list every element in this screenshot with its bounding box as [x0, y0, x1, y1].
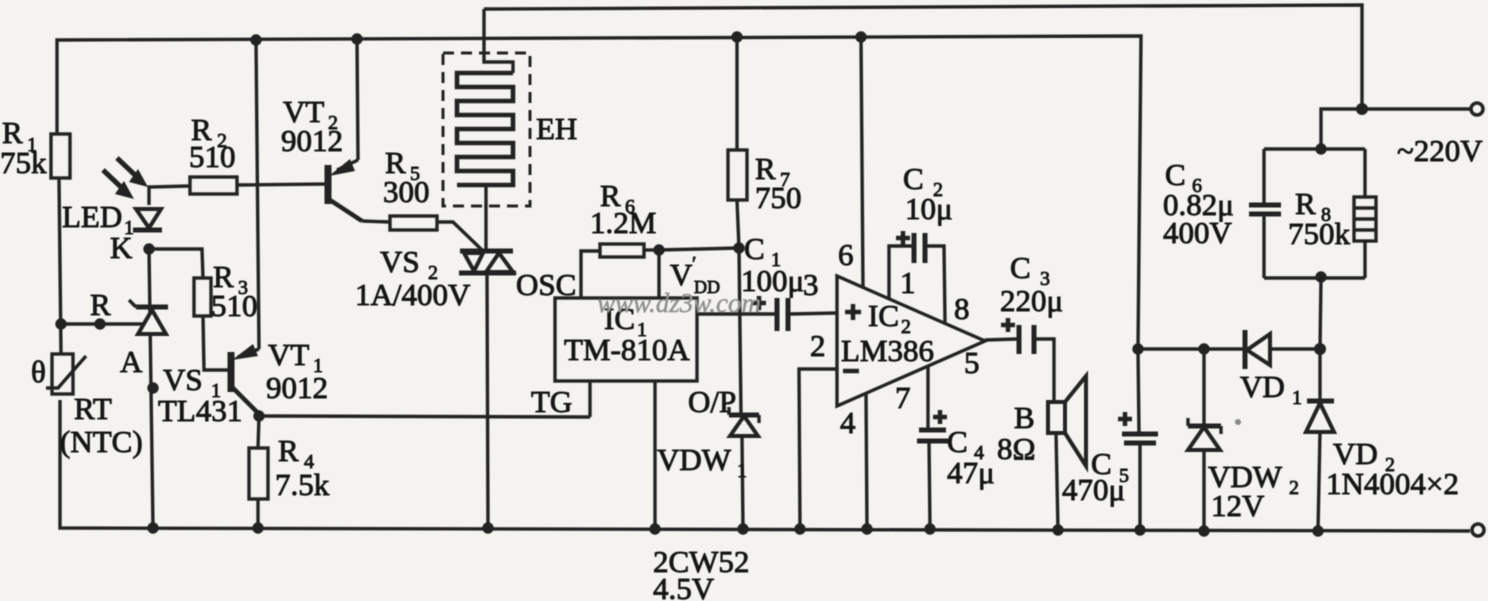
svg-text:www.dz3w.com: www.dz3w.com [597, 288, 761, 318]
label 2CW52 4.5V [653, 544, 749, 601]
svg-text:1: 1 [737, 460, 747, 482]
pin 2 label [810, 328, 826, 363]
op-amp IC2 LM386 [837, 276, 985, 406]
label VS2 1A/400V [355, 244, 471, 312]
label theta RT (NTC) [31, 354, 143, 459]
svg-text:2: 2 [1289, 477, 1299, 499]
polarity + of C3 [1001, 318, 1015, 332]
speaker B [1048, 376, 1086, 530]
label R2 510 [189, 112, 236, 174]
svg-text:C: C [947, 424, 968, 459]
svg-text:TL431: TL431 [158, 393, 242, 428]
pin 5 label [964, 345, 980, 380]
wire top rail (mains top) [484, 5, 1362, 109]
capacitor C1 [697, 298, 837, 331]
polarity + of C1 [752, 296, 766, 310]
node junction 220V corner [1356, 103, 1368, 115]
IC U1 TM-810A box [555, 298, 697, 381]
svg-text:5: 5 [964, 345, 980, 380]
node junction VD2-ground [1312, 525, 1323, 536]
label VDW2 12V [1208, 459, 1299, 523]
wire left column R1 to RT [59, 178, 61, 354]
shunt regulator VS1 TL431 [129, 300, 168, 334]
label VDW1 [657, 442, 747, 482]
capacitor C3 output [985, 325, 1054, 402]
polarity + of C2 [896, 231, 910, 245]
svg-text:1: 1 [1292, 387, 1302, 409]
pin 4 label [840, 405, 856, 440]
zener VDW1 [729, 407, 759, 529]
svg-text:′: ′ [692, 253, 696, 275]
wire 12V rail [1138, 347, 1320, 350]
svg-text:1: 1 [900, 265, 916, 300]
LED LED1 [133, 209, 162, 230]
wire VT1 collector to R4 to ground [258, 416, 259, 528]
pin 7 label [895, 380, 911, 415]
node junction VDW2-ground [1198, 525, 1209, 536]
snubber box wires [1264, 149, 1365, 349]
transistor VT1 9012 [231, 344, 259, 414]
resistor R1 [51, 134, 70, 178]
wire R7 to VDW1 [739, 248, 741, 415]
node junction rail2-VT2 [351, 33, 362, 44]
label B 8ohm [997, 400, 1036, 466]
label R8 750k [1288, 186, 1351, 251]
pin 2 wire [799, 369, 837, 529]
label TG [531, 384, 572, 419]
node junction pin2-ground [794, 523, 805, 534]
wire VS2 anode to ground [487, 273, 488, 528]
wire second rail (Vcc) [57, 36, 1141, 349]
svg-text:TG: TG [531, 384, 572, 419]
resistor R7 [728, 37, 747, 248]
svg-text:7.5k: 7.5k [275, 467, 330, 502]
svg-text:VS: VS [380, 244, 420, 279]
node junction VS2-ground [482, 522, 493, 533]
op-amp plus input mark [845, 304, 861, 320]
pin VDD wire [659, 248, 739, 298]
svg-text:300: 300 [383, 174, 430, 209]
svg-text:RT: RT [74, 391, 112, 426]
svg-text:~220V: ~220V [1397, 133, 1483, 168]
label OSC [516, 267, 576, 302]
wire VT1 emitter riser [256, 40, 259, 349]
node junction C4-ground [924, 523, 935, 534]
svg-text:A: A [120, 344, 143, 379]
svg-text:400V: 400V [1163, 215, 1233, 250]
wire TG net [259, 416, 590, 417]
svg-text:750k: 750k [1288, 216, 1351, 251]
node junction VD1-VD2 [1314, 343, 1326, 355]
label VT2 9012 [281, 94, 343, 158]
diode VD2 [1306, 349, 1334, 531]
pin 3 label [803, 267, 819, 302]
svg-text:470μ: 470μ [1062, 472, 1125, 507]
svg-text:VT: VT [268, 337, 309, 372]
wire IC1 ground pin [653, 381, 656, 529]
label VS1 TL431 [158, 362, 242, 428]
capacitor C4 [917, 430, 948, 529]
svg-text:K: K [110, 230, 133, 265]
terminal ~220V bottom [1472, 524, 1484, 536]
svg-text:B: B [1014, 400, 1035, 435]
svg-text:75k: 75k [0, 145, 47, 180]
node junction VDW2 top [1198, 343, 1209, 354]
heater EH element [457, 9, 513, 251]
label R4 7.5k [275, 433, 330, 502]
triac VS2 [459, 251, 516, 273]
label A node [120, 344, 143, 379]
label R5 300 [383, 145, 430, 209]
label VDD [670, 253, 720, 297]
op-amp minus input mark [843, 369, 859, 374]
label C1 100u [741, 231, 804, 298]
LED1 emission arrow a [103, 170, 134, 199]
svg-text:8Ω: 8Ω [997, 431, 1036, 466]
svg-text:1A/400V: 1A/400V [355, 277, 471, 312]
node junction R7-VDD net [733, 242, 744, 253]
label C5 470u [1062, 446, 1129, 507]
terminal ~220V top [1471, 103, 1483, 115]
label R3 510 [211, 259, 258, 323]
wire LED/R2/VT2-base net [149, 184, 328, 205]
svg-text:1.2M: 1.2M [590, 205, 656, 240]
svg-text:(NTC): (NTC) [60, 424, 143, 459]
label VT1 9012 [266, 337, 328, 405]
label R7 750 [755, 151, 802, 215]
svg-text:C: C [1010, 250, 1031, 285]
resistor R4 [249, 448, 268, 499]
svg-text:3: 3 [803, 267, 819, 302]
svg-text:1N4004×2: 1N4004×2 [1326, 466, 1459, 501]
node junction VDW1-ground [737, 523, 748, 534]
svg-text:7: 7 [895, 380, 911, 415]
capacitor C6 [1249, 149, 1281, 278]
node junction box bottom [1315, 271, 1326, 282]
label R1 75k [0, 115, 47, 180]
node junction C5-ground [1134, 524, 1145, 535]
label VD2 1N4004x2 [1326, 436, 1459, 501]
svg-text:O/P: O/P [688, 384, 736, 419]
svg-text:510: 510 [189, 139, 236, 174]
wire K node to R3 [149, 249, 203, 278]
pin OSC wire [581, 251, 600, 298]
svg-text:θ: θ [31, 354, 46, 389]
svg-text:R: R [278, 433, 299, 468]
node K [143, 243, 154, 254]
polarity + of C4 [933, 410, 947, 424]
node junction rail2-pin6 [855, 31, 866, 42]
transistor VT2 9012 [328, 39, 362, 221]
svg-text:TM-810A: TM-810A [564, 332, 690, 367]
resistor R2 [190, 177, 237, 194]
label C3 220u [1000, 250, 1063, 318]
svg-text:8: 8 [954, 291, 970, 326]
node junction IC1-ground [649, 523, 660, 534]
resistor R5 [362, 216, 482, 250]
pin 7 wire [926, 365, 929, 429]
label VD1 [1240, 369, 1302, 409]
wire ~220V top feed [1321, 109, 1470, 149]
svg-text:10μ: 10μ [905, 191, 953, 226]
svg-text:750: 750 [755, 180, 802, 215]
node A [147, 382, 158, 393]
label C4 47u [947, 424, 995, 490]
pin 1 label [900, 265, 916, 300]
polarity + of C5 [1118, 412, 1132, 426]
thermistor RT [46, 354, 86, 394]
svg-text:47μ: 47μ [947, 455, 995, 490]
wire LED1 cathode to VS1 to ground [149, 249, 153, 528]
pin 4 wire [866, 393, 867, 529]
svg-text:OSC: OSC [516, 267, 576, 302]
svg-text:220μ: 220μ [1000, 283, 1063, 318]
label LED1 K [62, 199, 134, 265]
capacitor C5 [1122, 349, 1158, 530]
svg-text:VS: VS [163, 362, 203, 397]
wire bottom rail (ground/common) [60, 400, 1470, 531]
node R [94, 318, 105, 329]
wire TG stub to IC1 [588, 381, 591, 417]
resistor R8 boxed [1354, 149, 1376, 278]
svg-text:LED: LED [62, 199, 122, 234]
svg-text:EH: EH [536, 111, 577, 146]
watermark [597, 288, 761, 318]
heater EH dashed box [443, 53, 530, 206]
node junction pin4-ground [861, 523, 872, 534]
label ~220V [1397, 133, 1483, 168]
pin 6 label [838, 237, 854, 272]
svg-text:R: R [90, 287, 111, 322]
label O/P [688, 384, 736, 419]
svg-text:LM386: LM386 [841, 333, 934, 368]
node junction VS1-ground [147, 522, 158, 533]
wire R node horizontal [61, 322, 146, 325]
svg-text:4.5V: 4.5V [653, 571, 715, 601]
capacitor C2 bootstrap [889, 233, 945, 322]
node junction rail2-R2 line [250, 34, 261, 45]
node junction box top [1315, 143, 1326, 154]
wire R3 to VT1 base [203, 316, 229, 370]
node junction R4-ground [252, 522, 263, 533]
svg-text:C: C [744, 231, 765, 266]
svg-text:2: 2 [810, 328, 826, 363]
node junction R6-VDD [653, 244, 664, 255]
label C6 0.82u 400V [1163, 157, 1234, 250]
label R node [90, 287, 111, 322]
svg-text:9012: 9012 [281, 123, 343, 158]
svg-text:510: 510 [211, 288, 258, 323]
resistor R3 [194, 278, 211, 316]
svg-text:12V: 12V [1211, 488, 1265, 523]
pin 8 label [954, 291, 970, 326]
svg-text:V: V [670, 257, 693, 292]
label IC1 TM-810A [564, 301, 690, 367]
pin 6 wire [861, 37, 863, 288]
LED1 emission arrow b [117, 158, 148, 187]
label C2 10u [903, 161, 953, 226]
label EH [536, 111, 577, 146]
diode VD1 [1245, 330, 1270, 369]
zener VDW2 [1188, 349, 1221, 531]
scan speck near VDW2 [1235, 419, 1241, 425]
svg-text:IC: IC [868, 298, 899, 333]
node junction left rail R [55, 318, 66, 329]
node junction VT1-TG [253, 410, 264, 421]
resistor R6 [600, 244, 659, 257]
label R6 1.2M [590, 178, 656, 240]
svg-text:VD: VD [1240, 369, 1285, 404]
svg-text:4: 4 [840, 405, 856, 440]
node junction rail2-R7 [731, 31, 742, 42]
svg-text:VDW: VDW [657, 442, 732, 477]
svg-text:9012: 9012 [266, 370, 328, 405]
svg-text:6: 6 [838, 237, 854, 272]
node junction rail2 drop / C5 / audio rail [1132, 343, 1143, 354]
label IC2 LM386 [841, 298, 934, 368]
node junction speaker-ground [1052, 524, 1063, 535]
